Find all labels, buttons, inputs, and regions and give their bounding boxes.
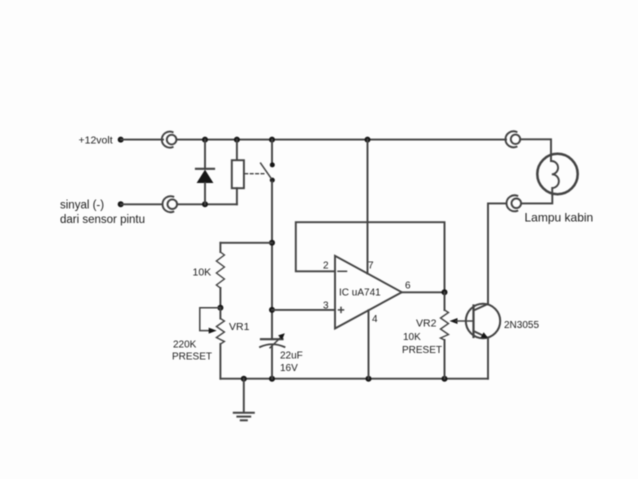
svg-text:220K: 220K (173, 340, 197, 351)
svg-text:PRESET: PRESET (172, 352, 212, 363)
svg-text:+12volt: +12volt (79, 135, 113, 147)
svg-text:Lampu kabin: Lampu kabin (525, 211, 594, 225)
svg-text:10K: 10K (193, 267, 212, 279)
junction (366, 376, 372, 382)
svg-text:3: 3 (323, 301, 329, 312)
wire (121, 203, 162, 205)
svg-text:IC uA741: IC uA741 (339, 288, 381, 299)
wire to transistor collector (488, 203, 506, 304)
relay coil K1 (232, 140, 244, 205)
wire switch to capacitor (271, 182, 273, 340)
wire (121, 139, 163, 141)
potentiometer VR2 10K PRESET (441, 292, 474, 378)
transistor Q1 2N3055 (466, 304, 500, 379)
wire resistor top link (220, 242, 272, 244)
op-amp U1 IC uA741 (335, 256, 402, 329)
wire dashed relay link (245, 173, 266, 175)
wire to lamp (520, 139, 551, 161)
wire top rail (176, 139, 506, 141)
capacitor C1 22uF (260, 333, 285, 379)
junction (269, 307, 275, 313)
junction (241, 376, 247, 382)
svg-text:7: 7 (368, 261, 374, 272)
junction (202, 201, 208, 207)
svg-text:6: 6 (405, 281, 411, 292)
potentiometer VR1 220K PRESET (200, 308, 225, 379)
svg-text:10K: 10K (403, 332, 421, 343)
wire bottom rail (220, 378, 488, 380)
svg-text:dari sensor pintu: dari sensor pintu (60, 214, 145, 226)
svg-text:16V: 16V (280, 363, 298, 374)
svg-text:sinyal (-): sinyal (-) (60, 200, 104, 212)
svg-text:4: 4 (372, 314, 378, 325)
svg-text:22uF: 22uF (280, 351, 303, 362)
wire sinyal line (177, 203, 237, 205)
node sinyal terminal dot (118, 201, 124, 207)
connector J3 (507, 195, 522, 211)
diode D1 (196, 140, 214, 205)
junction (442, 376, 448, 382)
svg-text:2N3055: 2N3055 (504, 320, 539, 331)
wire lamp bottom (521, 195, 552, 203)
junction (202, 137, 208, 143)
svg-text:VR1: VR1 (229, 321, 250, 333)
wire pin 4 to ground rail (368, 310, 370, 378)
lamp Lampu kabin (537, 154, 577, 195)
wire pin 6 output (402, 291, 445, 293)
junction (269, 240, 275, 246)
connector J4 (163, 196, 178, 212)
junction (217, 305, 223, 311)
resistor R1 10K (216, 243, 224, 308)
wire op-amp pin3 input (272, 309, 335, 311)
svg-text:PRESET: PRESET (402, 345, 442, 356)
junction (365, 137, 371, 143)
junction (442, 289, 448, 295)
svg-text:VR2: VR2 (416, 318, 437, 330)
wire pin 7 supply (367, 140, 369, 274)
junction (269, 137, 275, 143)
svg-text:2: 2 (323, 261, 329, 272)
wire feedback loop (296, 222, 445, 292)
connector J2 (505, 131, 520, 147)
ground (234, 379, 254, 421)
junction (269, 376, 275, 382)
node +12volt terminal dot (118, 137, 124, 143)
junction (234, 137, 240, 143)
connector J1 (162, 132, 177, 148)
switch S1 (261, 140, 275, 183)
